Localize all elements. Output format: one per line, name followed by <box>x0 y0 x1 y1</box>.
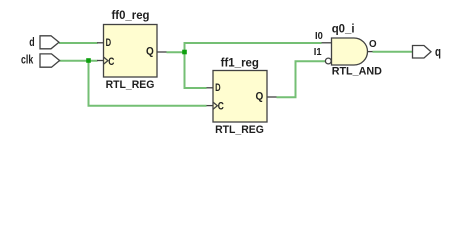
svg-text:O: O <box>369 39 377 50</box>
svg-text:Q: Q <box>146 45 154 57</box>
svg-text:ff0_reg: ff0_reg <box>112 8 150 22</box>
svg-text:Q: Q <box>256 90 264 102</box>
svg-text:RTL_REG: RTL_REG <box>215 124 264 136</box>
svg-text:ff1_reg: ff1_reg <box>221 55 259 69</box>
svg-text:C: C <box>108 56 114 68</box>
svg-text:C: C <box>218 101 224 113</box>
svg-text:RTL_AND: RTL_AND <box>332 66 382 78</box>
svg-text:q0_i: q0_i <box>332 23 355 35</box>
svg-text:q: q <box>435 44 441 59</box>
svg-text:I0: I0 <box>315 31 323 42</box>
svg-text:d: d <box>29 35 34 49</box>
svg-text:D: D <box>106 37 112 49</box>
svg-text:D: D <box>215 82 221 94</box>
svg-text:I1: I1 <box>314 47 322 58</box>
svg-text:RTL_REG: RTL_REG <box>106 79 155 91</box>
svg-text:clk: clk <box>21 53 33 67</box>
